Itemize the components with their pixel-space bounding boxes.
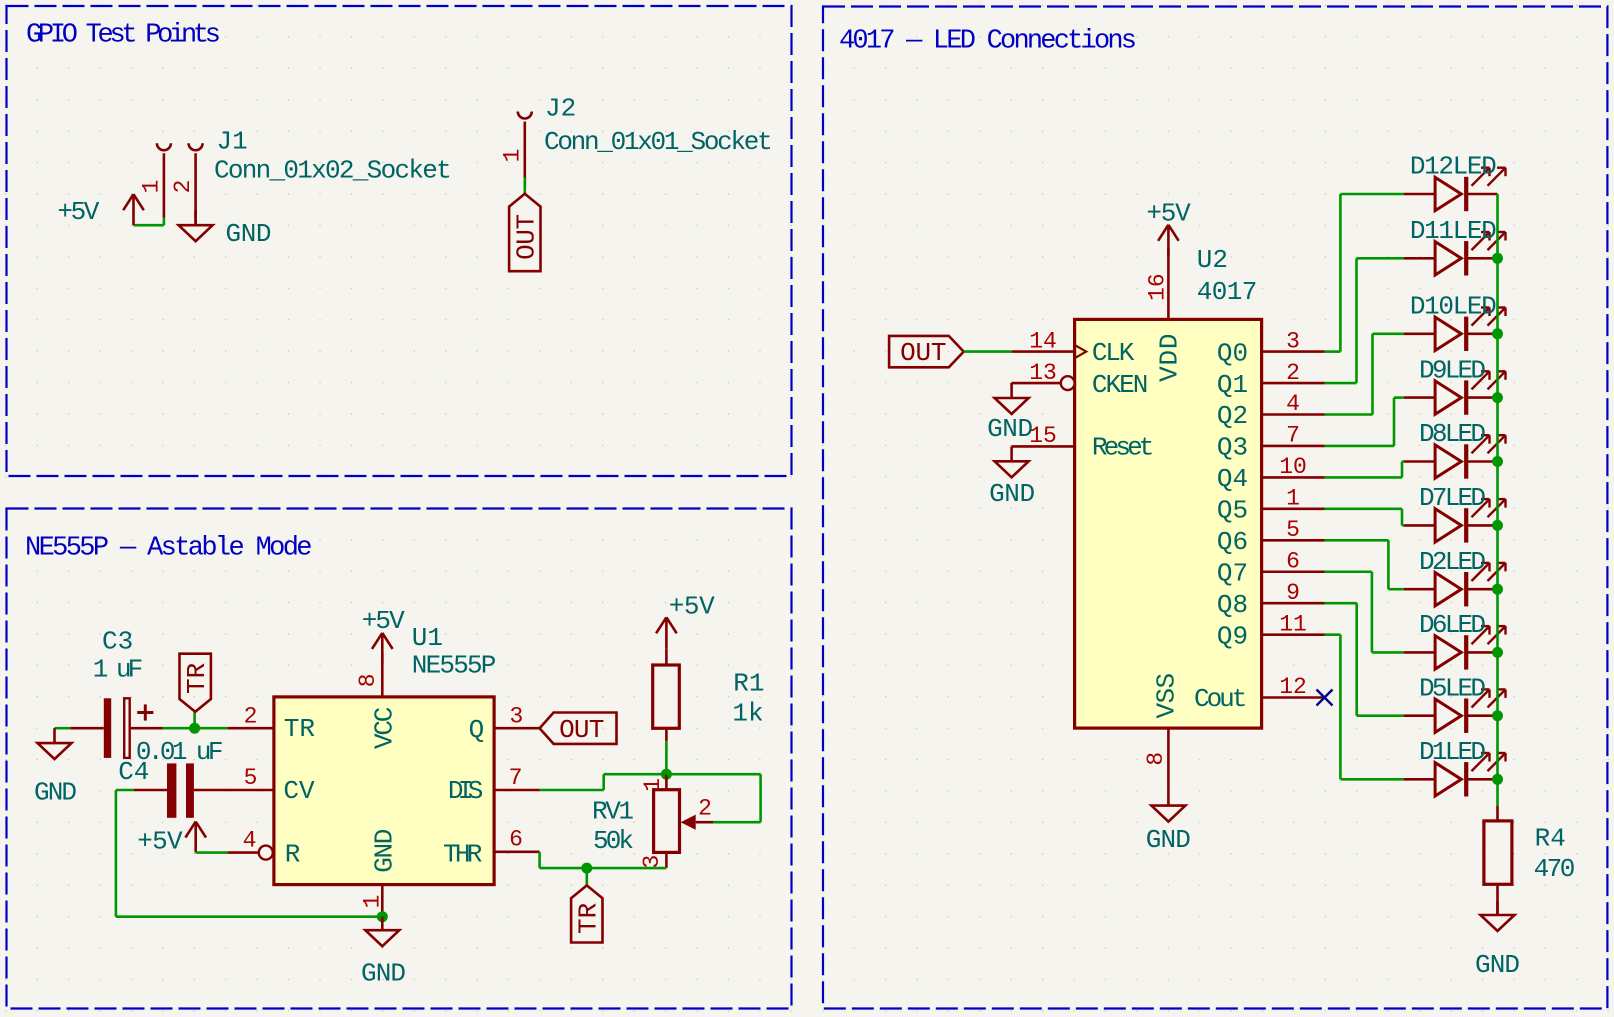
label C4 value 0.01 uF xyxy=(136,737,224,767)
label U2 value 4017 xyxy=(1197,277,1258,307)
pin name Q1 (U2) xyxy=(1217,370,1248,400)
global label OUT (to U2 CLK) xyxy=(889,336,964,368)
svg-text:Q8: Q8 xyxy=(1217,590,1248,620)
wire J1 pin1 to +5V xyxy=(134,217,164,225)
LED D9 xyxy=(1404,355,1506,415)
pin name VCC (U1) xyxy=(370,707,400,749)
svg-text:1 uF: 1 uF xyxy=(93,655,143,685)
U2 pin 8 VSS xyxy=(1167,728,1170,791)
label +5V (J1) xyxy=(57,197,99,227)
svg-text:4017: 4017 xyxy=(1197,277,1258,307)
U1 pin 4 R (inverted) xyxy=(227,846,272,860)
pin number 9 (U2 Q8) xyxy=(1286,580,1300,606)
svg-text:3: 3 xyxy=(509,703,523,729)
pin name GND (U1) xyxy=(370,829,400,873)
potentiometer RV1 xyxy=(654,774,680,868)
svg-text:D5LED: D5LED xyxy=(1419,673,1486,703)
svg-text:OUT: OUT xyxy=(559,715,604,745)
svg-text:Q4: Q4 xyxy=(1217,464,1248,494)
wire R1 to RV1 node xyxy=(665,741,668,774)
pin name Q4 (U2) xyxy=(1217,464,1248,494)
resistor R1 xyxy=(653,665,680,741)
pin number 13 (U2) xyxy=(1029,360,1057,386)
pin name Q6 (U2) xyxy=(1217,527,1248,557)
U2 pin 6 Q7 xyxy=(1262,570,1325,573)
LED D12 xyxy=(1404,152,1506,212)
power +5V (U1 R pin) xyxy=(185,822,206,853)
svg-text:+5V: +5V xyxy=(362,606,405,636)
pin name Q3 (U2) xyxy=(1217,433,1248,463)
svg-text:2: 2 xyxy=(244,703,258,729)
section box 4017 LED Connections xyxy=(823,7,1607,1009)
label U2 reference xyxy=(1197,245,1228,275)
pin name VDD (U2) xyxy=(1155,334,1185,382)
pin name Q0 (U2) xyxy=(1217,338,1248,368)
U2 pin 11 Q9 xyxy=(1262,633,1325,636)
svg-text:RV1: RV1 xyxy=(592,797,634,827)
label U1 reference xyxy=(412,623,443,653)
power +5V (U2 VDD) xyxy=(1158,225,1179,256)
ground GND (U2 CKEN) xyxy=(995,383,1029,414)
U2 pin 7 Q3 xyxy=(1262,445,1325,448)
wire CKEN to GND xyxy=(1010,382,1013,385)
U2 pin 2 Q1 xyxy=(1262,382,1325,385)
svg-text:Q: Q xyxy=(469,715,485,745)
pin name CLK (U2) xyxy=(1092,338,1135,368)
U2 pin 4 Q2 xyxy=(1262,413,1325,416)
section box GPIO Test Points xyxy=(7,6,792,476)
label J1 value Conn_01x02_Socket xyxy=(214,156,452,186)
wire RV1 wiper loop xyxy=(666,774,760,822)
wire U1 DIS to RV1 node xyxy=(540,774,667,790)
svg-text:8: 8 xyxy=(1143,752,1169,766)
LED D6 xyxy=(1404,610,1506,670)
label R1 value 1k xyxy=(732,699,763,729)
U1 pin 3 Q xyxy=(494,727,539,730)
capacitor C3 xyxy=(70,698,162,758)
wire J2 pin1 to OUT flag xyxy=(523,178,526,194)
wire node TR to U1 pin2 xyxy=(195,727,228,730)
wire U2 Q3 to D9 xyxy=(1325,398,1404,446)
svg-text:CV: CV xyxy=(283,776,315,806)
svg-text:GND: GND xyxy=(1146,825,1191,855)
label GND (U2 Reset) xyxy=(989,479,1035,509)
op-amp timer U1 NE555P body xyxy=(274,697,494,885)
pin number 6 (U2 Q7) xyxy=(1286,548,1300,574)
power +5V (J1) xyxy=(123,194,144,225)
svg-text:+5V: +5V xyxy=(1146,199,1191,229)
svg-text:D12LED: D12LED xyxy=(1410,152,1497,182)
U2 pin 1 Q5 xyxy=(1262,508,1325,511)
svg-text:5: 5 xyxy=(244,765,258,791)
pin name Q5 (U2) xyxy=(1217,496,1248,526)
pin name Q2 (U2) xyxy=(1217,401,1248,431)
svg-text:2: 2 xyxy=(1286,360,1300,386)
svg-text:GND: GND xyxy=(361,959,406,989)
svg-text:J1: J1 xyxy=(217,126,248,156)
junction rail at D11 xyxy=(1492,253,1503,264)
svg-text:470: 470 xyxy=(1534,854,1576,884)
svg-text:R: R xyxy=(285,840,301,870)
pin name Q (U1) xyxy=(469,715,485,745)
label RV1 reference xyxy=(592,797,634,827)
label J2 value Conn_01x01_Socket xyxy=(544,127,773,157)
svg-text:GND: GND xyxy=(34,778,77,808)
wire U2 Q1 to D11 xyxy=(1325,258,1404,383)
label J2 reference xyxy=(545,94,576,124)
label GND (J1) xyxy=(226,219,272,249)
ground GND (U2 Reset) xyxy=(995,446,1029,477)
LED D2 xyxy=(1404,547,1506,607)
svg-text:+5V: +5V xyxy=(669,592,715,622)
svg-text:Q5: Q5 xyxy=(1217,496,1248,526)
label GND (R4) xyxy=(1475,950,1520,980)
global label TR (at THR) xyxy=(571,885,603,942)
U2 pin 3 Q0 xyxy=(1262,350,1325,353)
svg-text:C3: C3 xyxy=(102,627,133,657)
svg-text:3: 3 xyxy=(1286,328,1300,354)
svg-text:2: 2 xyxy=(170,180,196,194)
wire U2 Q0 to D12 xyxy=(1325,194,1404,352)
label GND (U1 pin1) xyxy=(361,959,406,989)
svg-text:GND: GND xyxy=(226,219,272,249)
svg-text:D6LED: D6LED xyxy=(1419,610,1486,640)
svg-text:GND: GND xyxy=(1475,950,1520,980)
wire OUT to U2 CLK xyxy=(964,350,1012,353)
svg-text:D2LED: D2LED xyxy=(1419,547,1486,577)
junction rail at D5 xyxy=(1492,710,1503,721)
svg-text:Q6: Q6 xyxy=(1217,527,1248,557)
svg-text:9: 9 xyxy=(1286,580,1300,606)
pin number 7 (U1) xyxy=(509,765,523,791)
global label OUT (J2) xyxy=(509,194,541,271)
LED D11 xyxy=(1404,216,1506,276)
connector J2 pin 1 socket xyxy=(518,112,532,187)
svg-text:VDD: VDD xyxy=(1155,334,1185,382)
svg-text:1: 1 xyxy=(1286,486,1300,512)
svg-text:Conn_01x02_Socket: Conn_01x02_Socket xyxy=(214,156,452,186)
ground GND (U1 pin1) xyxy=(365,917,399,947)
junction at U1 pin1 xyxy=(377,911,388,922)
LED D8 xyxy=(1404,419,1506,479)
pin number 8 (U1) xyxy=(355,673,381,687)
pin number 5 (U2 Q6) xyxy=(1286,517,1300,543)
svg-text:6: 6 xyxy=(1286,548,1300,574)
svg-text:1: 1 xyxy=(139,180,165,194)
svg-text:D7LED: D7LED xyxy=(1419,483,1486,513)
U2 pin 5 Q6 xyxy=(1262,539,1325,542)
wire TR flag stem xyxy=(193,712,196,728)
svg-text:Reset: Reset xyxy=(1092,432,1155,462)
svg-text:1k: 1k xyxy=(732,699,763,729)
capacitor C4 xyxy=(134,763,194,817)
global label OUT (U1 Q) xyxy=(540,713,617,745)
pin number 15 (U2) xyxy=(1029,423,1057,449)
svg-text:Q0: Q0 xyxy=(1217,338,1248,368)
pin name DIS (U1) xyxy=(448,776,483,806)
wire U2 Q8 to D5 xyxy=(1325,603,1404,716)
svg-text:U1: U1 xyxy=(412,623,443,653)
svg-text:GND: GND xyxy=(370,829,400,873)
junction rail at D2 xyxy=(1492,584,1503,595)
junction R1/RV1 node xyxy=(661,769,672,780)
svg-text:8: 8 xyxy=(355,673,381,687)
pin number 11 (U2 Q9) xyxy=(1279,611,1307,637)
pin name TR (U1) xyxy=(284,714,315,744)
pin name R (U1) xyxy=(285,840,301,870)
wire U2 Q6 to D2 xyxy=(1325,540,1404,589)
label +5V (U1 VCC) xyxy=(362,606,405,636)
label GND (U2 VSS) xyxy=(1146,825,1191,855)
label C3 reference xyxy=(102,627,133,657)
svg-text:7: 7 xyxy=(1286,423,1300,449)
LED D10 xyxy=(1404,292,1506,352)
U1 pin 2 TR xyxy=(227,727,274,730)
pin number 10 (U2 Q4) xyxy=(1279,454,1307,480)
U2 pin 12 Cout xyxy=(1262,696,1325,699)
svg-text:J2: J2 xyxy=(545,94,576,124)
junction rail at D6 xyxy=(1492,647,1503,658)
wire TR2 flag stem xyxy=(585,868,588,885)
power +5V (R1) xyxy=(656,617,677,665)
U2 pin 13 CKEN (inverted) xyxy=(1012,376,1075,390)
ground GND (U2 VSS) xyxy=(1151,791,1185,822)
wire C4 to U1 pin1 net xyxy=(116,790,382,917)
resistor R4 xyxy=(1484,806,1512,915)
pin name Q7 (U2) xyxy=(1217,558,1248,588)
svg-text:NE555P — Astable Mode: NE555P — Astable Mode xyxy=(25,534,313,564)
junction rail at D10 xyxy=(1492,328,1503,339)
no-connect X at Cout xyxy=(1317,690,1333,706)
pin number 6 (U1) xyxy=(509,827,523,853)
wire U2 Q5 to D7 xyxy=(1325,509,1404,526)
pin number 1 (J2) xyxy=(499,149,525,163)
wire C3 to GND xyxy=(55,727,71,730)
pin number 1 (J1) xyxy=(139,180,165,194)
svg-text:D1LED: D1LED xyxy=(1419,737,1486,767)
svg-text:14: 14 xyxy=(1029,328,1057,354)
wire U2 Q2 to D10 xyxy=(1325,334,1404,415)
wire U2 Q4 to D8 xyxy=(1325,462,1404,478)
svg-text:0.01 uF: 0.01 uF xyxy=(136,737,224,767)
LED D5 xyxy=(1404,673,1506,733)
svg-text:D10LED: D10LED xyxy=(1410,292,1497,322)
pin name VSS (U2) xyxy=(1152,673,1182,719)
svg-text:OUT: OUT xyxy=(511,214,541,260)
svg-text:4017 — LED Connections: 4017 — LED Connections xyxy=(839,27,1137,57)
U2 pin 14 CLK xyxy=(1012,345,1087,358)
svg-text:1: 1 xyxy=(499,149,525,163)
label +5V (U2 VDD) xyxy=(1146,199,1191,229)
svg-text:15: 15 xyxy=(1029,423,1057,449)
pin number 3 (RV1) xyxy=(639,855,665,869)
connector J1 pin 2 socket xyxy=(189,143,203,225)
svg-text:D11LED: D11LED xyxy=(1410,216,1497,246)
U1 pin 8 VCC xyxy=(381,653,384,697)
svg-text:10: 10 xyxy=(1279,454,1307,480)
svg-text:VSS: VSS xyxy=(1152,673,1182,719)
wire U2 Q7 to D6 xyxy=(1325,572,1404,653)
pin name Q8 (U2) xyxy=(1217,590,1248,620)
svg-text:11: 11 xyxy=(1279,611,1307,637)
svg-text:4: 4 xyxy=(1286,391,1300,417)
junction rail at D9 xyxy=(1492,392,1503,403)
svg-text:Conn_01x01_Socket: Conn_01x01_Socket xyxy=(544,127,773,157)
pin name Cout (U2) xyxy=(1194,684,1247,714)
pin number 2 (RV1) xyxy=(698,796,712,822)
svg-text:50k: 50k xyxy=(593,826,634,856)
svg-text:Q1: Q1 xyxy=(1217,370,1248,400)
power +5V (U1 VCC) xyxy=(372,633,393,664)
svg-text:DIS: DIS xyxy=(448,776,483,806)
svg-text:GPIO Test Points: GPIO Test Points xyxy=(26,21,221,51)
junction node TR xyxy=(189,723,200,734)
svg-text:Q2: Q2 xyxy=(1217,401,1248,431)
U2 pin 16 VDD xyxy=(1167,249,1170,320)
pin number 2 (U1) xyxy=(244,703,258,729)
pin name THR (U1) xyxy=(443,840,482,870)
connector J1 pin 1 socket xyxy=(157,143,171,218)
svg-text:7: 7 xyxy=(509,765,523,791)
svg-text:+5V: +5V xyxy=(137,827,183,857)
svg-text:Q3: Q3 xyxy=(1217,433,1248,463)
wire LED cathode rail xyxy=(1496,194,1499,806)
label GND (C3) xyxy=(34,778,77,808)
LED D7 xyxy=(1404,483,1506,542)
pin number 3 (U2 Q0) xyxy=(1286,328,1300,354)
svg-text:THR: THR xyxy=(443,840,482,870)
svg-text:R1: R1 xyxy=(733,669,764,699)
pin number 2 (U2 Q1) xyxy=(1286,360,1300,386)
global label TR (at C3) xyxy=(180,654,212,712)
ground GND (R4) xyxy=(1481,901,1515,931)
svg-text:U2: U2 xyxy=(1197,245,1228,275)
pin number 14 (U2) xyxy=(1029,328,1057,354)
pin number 1 (U1) xyxy=(360,895,386,909)
U1 pin 7 DIS xyxy=(494,789,539,792)
svg-text:D8LED: D8LED xyxy=(1419,419,1486,449)
ground GND (J1 pin2) xyxy=(179,211,213,241)
junction rail at D1 xyxy=(1492,774,1503,785)
svg-text:2: 2 xyxy=(698,796,712,822)
label C3 value 1 uF xyxy=(93,655,143,685)
svg-text:CLK: CLK xyxy=(1092,338,1135,368)
svg-text:VCC: VCC xyxy=(370,707,400,749)
RV1 wiper arrow xyxy=(681,815,713,830)
pin name Reset (U2) xyxy=(1092,432,1155,462)
svg-text:+5V: +5V xyxy=(57,197,99,227)
svg-text:OUT: OUT xyxy=(900,338,946,368)
pin number 16 (U2) xyxy=(1145,273,1171,301)
svg-text:6: 6 xyxy=(509,827,523,853)
label GND (U2 CKEN) xyxy=(987,414,1033,444)
svg-text:Cout: Cout xyxy=(1194,684,1247,714)
U2 pin 9 Q8 xyxy=(1262,602,1325,605)
label U1 value NE555P xyxy=(412,650,497,680)
pin number 4 (U1) xyxy=(243,827,257,853)
pin number 8 (U2) xyxy=(1143,752,1169,766)
svg-text:D9LED: D9LED xyxy=(1419,355,1486,385)
svg-text:1: 1 xyxy=(640,778,666,792)
svg-text:TR: TR xyxy=(182,663,212,694)
svg-text:5: 5 xyxy=(1286,517,1300,543)
label J1 reference xyxy=(217,126,248,156)
svg-text:CKEN: CKEN xyxy=(1092,370,1149,400)
pin number 3 (U1) xyxy=(509,703,523,729)
svg-text:TR: TR xyxy=(284,714,315,744)
svg-text:GND: GND xyxy=(989,479,1035,509)
U1 pin 1 GND xyxy=(381,885,384,917)
svg-text:TR: TR xyxy=(573,903,603,934)
label R4 value 470 xyxy=(1534,854,1576,884)
svg-text:3: 3 xyxy=(639,855,665,869)
svg-text:12: 12 xyxy=(1279,674,1307,700)
pin number 5 (U1) xyxy=(244,765,258,791)
label RV1 value 50k xyxy=(593,826,634,856)
svg-text:NE555P: NE555P xyxy=(412,650,497,680)
pin name CV (U1) xyxy=(283,776,315,806)
svg-text:Q9: Q9 xyxy=(1217,621,1248,651)
pin name CKEN (U2) xyxy=(1092,370,1149,400)
label R4 reference xyxy=(1535,824,1566,854)
counter U2 4017 body xyxy=(1075,319,1262,728)
pin name Q9 (U2) xyxy=(1217,621,1248,651)
junction rail at D7 xyxy=(1492,520,1503,531)
pin number 7 (U2 Q3) xyxy=(1286,423,1300,449)
junction rail at D8 xyxy=(1492,456,1503,467)
ground GND (C3) xyxy=(38,728,72,759)
label +5V (R1) xyxy=(669,592,715,622)
svg-text:13: 13 xyxy=(1029,360,1057,386)
svg-text:16: 16 xyxy=(1145,273,1171,301)
pin number 1 (RV1) xyxy=(640,778,666,792)
junction node TR2 xyxy=(581,863,592,874)
svg-text:1: 1 xyxy=(360,895,386,909)
U1 pin 5 CV xyxy=(194,789,274,792)
label +5V (U1 R pin) xyxy=(137,827,183,857)
U2 pin 15 Reset xyxy=(1012,445,1075,448)
label R1 reference xyxy=(733,669,764,699)
label C4 reference xyxy=(118,757,149,787)
pin number 1 (U2 Q5) xyxy=(1286,486,1300,512)
LED D1 xyxy=(1404,737,1506,797)
wire +5V to U1 pin4 xyxy=(196,851,228,854)
svg-text:4: 4 xyxy=(243,827,257,853)
svg-text:GND: GND xyxy=(987,414,1033,444)
section box NE555P Astable Mode xyxy=(7,509,792,1009)
U2 pin 10 Q4 xyxy=(1262,476,1325,479)
wire C3 to node TR xyxy=(163,727,195,730)
wire U2 Q9 to D1 xyxy=(1325,635,1404,780)
wire RV1 pin3 to THR xyxy=(540,852,667,868)
svg-text:R4: R4 xyxy=(1535,824,1566,854)
U1 pin 6 THR xyxy=(494,850,539,853)
svg-text:Q7: Q7 xyxy=(1217,558,1248,588)
pin number 12 (U2) xyxy=(1279,674,1307,700)
pin number 2 (J1) xyxy=(170,180,196,194)
pin number 4 (U2 Q2) xyxy=(1286,391,1300,417)
